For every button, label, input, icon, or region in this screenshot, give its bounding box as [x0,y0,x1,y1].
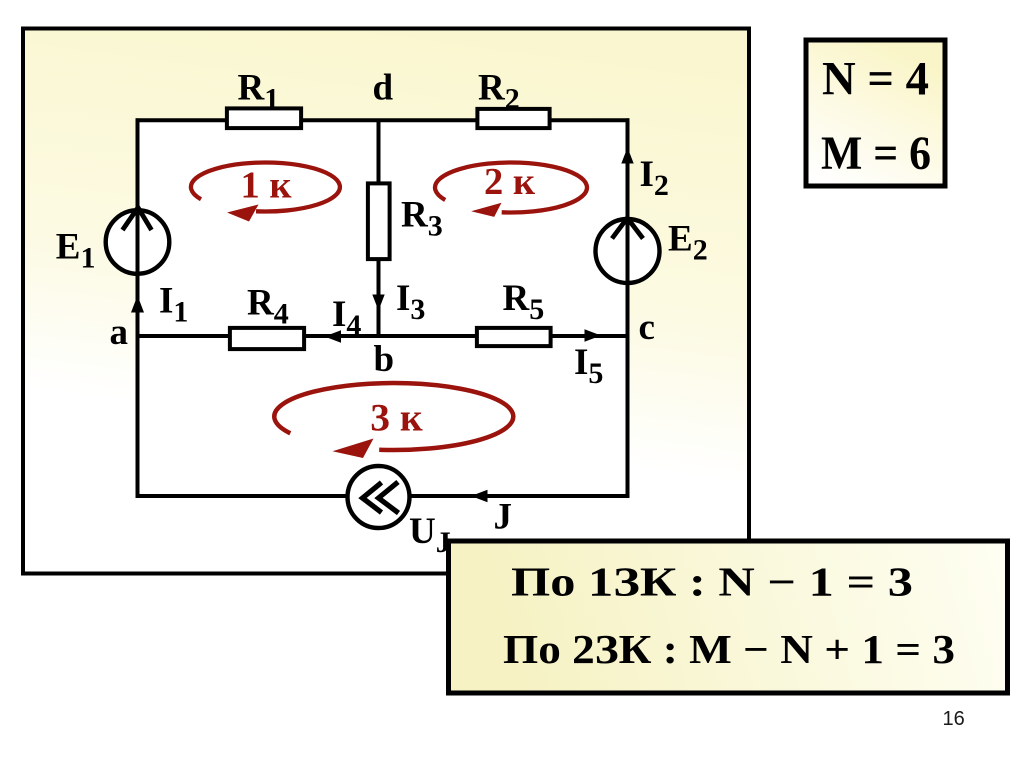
current arrow I5 [585,329,602,341]
wire middle horizontal a-b-c [136,334,630,338]
wire right vertical (E2 branch) [626,118,630,498]
source E2 arrowhead chevron [612,218,643,239]
current arrow I2 [621,148,633,164]
current arrow I4 [325,330,342,342]
wire middle vertical d-b [377,120,381,338]
main framed panel [23,29,749,574]
svg-text:d: d [373,68,394,109]
loop arrow 3 к [274,383,513,458]
current source UJ circle [348,466,410,528]
current source UJ chevron 1 [363,483,382,513]
loop arrow 1 к [191,162,340,221]
svg-text:По 1ЗК : N − 1 = 3: По 1ЗК : N − 1 = 3 [511,559,913,605]
source E1 arrowhead chevron [123,208,152,231]
svg-text:M = 6: M = 6 [821,127,931,180]
svg-text:b: b [374,339,395,380]
source E2 arrow shaft [626,217,630,284]
wire bottom J-row [136,494,630,498]
svg-text:c: c [639,307,655,348]
wire left vertical (E1 branch) [136,118,140,498]
loop arrow 2 к [435,161,587,217]
source E1 circle [106,210,170,274]
circuit interior white area [138,120,628,496]
source E1 arrow shaft [136,207,140,274]
current source UJ chevron 2 [379,482,399,513]
svg-text:По 2ЗК : M − N + 1 = 3: По 2ЗК : M − N + 1 = 3 [503,626,955,672]
svg-text:a: a [110,312,129,353]
formula box [449,541,1008,693]
svg-text:N = 4: N = 4 [822,53,929,106]
current arrow I3 [372,295,384,311]
resistor R1 [227,108,301,128]
source E2 circle [596,219,660,283]
current arrow J [471,490,488,502]
current arrow I1 [131,296,144,313]
resistor R5 [477,328,551,346]
svg-text:2 к: 2 к [484,161,536,203]
resistor R3 [368,183,390,259]
svg-text:1 к: 1 к [240,165,292,207]
svg-text:J: J [494,497,513,538]
svg-text:3 к: 3 к [370,396,423,440]
N M info box [806,40,945,186]
wire top d-row [136,118,630,122]
resistor R2 [477,109,549,128]
svg-text:16: 16 [943,708,965,730]
resistor R4 [230,328,304,349]
